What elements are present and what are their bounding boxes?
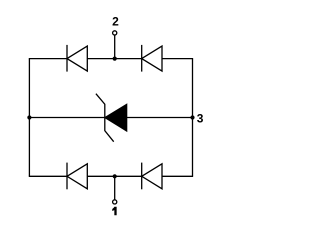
wire: top-left segment (left bus to D1 cathode) (29, 58, 67, 60)
pin label 1 (112, 207, 116, 215)
zener diode Z1 cathode bar with bent ends (96, 94, 114, 142)
diode D4 (bottom right) cathode bar (141, 163, 143, 190)
pin 1 terminal circle (113, 200, 117, 204)
junction dot left bus / middle wire (27, 115, 31, 119)
wire: middle-left segment (left bus to Z1 cathode) (29, 117, 105, 119)
diode D3 (bottom left) triangle (67, 164, 87, 189)
svg-text:3: 3 (197, 111, 204, 125)
junction dot right bus / node 3 (190, 115, 194, 119)
wire: pin 2 lead (114, 35, 116, 59)
diode D4 (bottom right) triangle (142, 164, 162, 189)
svg-text:2: 2 (112, 15, 119, 29)
junction dot at node 1 (113, 174, 117, 178)
wire: left vertical bus (28, 59, 30, 177)
wire: middle-right segment (Z1 anode to right bus / node 3) (127, 117, 193, 119)
wire: bottom-right segment (D4 anode to right bus) (162, 175, 193, 177)
wire: right vertical bus (192, 59, 194, 177)
diode D1 (top left) triangle (67, 46, 87, 71)
diode D3 (bottom left) cathode bar (66, 163, 68, 190)
diode D1 (top left) cathode bar (66, 45, 68, 72)
diode D2 (top right) triangle (142, 46, 162, 71)
zener diode Z1 filled triangle (anode) (105, 104, 127, 131)
wire: pin 1 lead (114, 176, 116, 200)
junction dot at node 2 (113, 57, 117, 61)
wire: bottom-left segment (left bus to D3 cathode) (29, 175, 67, 177)
diode D2 (top right) cathode bar (141, 45, 143, 72)
pin 2 terminal circle (113, 31, 117, 35)
wire: top-right segment (D2 anode to right bus) (162, 58, 193, 60)
wire: bottom-middle segment (D3 anode to D4 cathode, through node 1) (87, 175, 141, 177)
wire: top-middle segment (D1 anode to D2 cathode, through node 2) (87, 58, 141, 60)
